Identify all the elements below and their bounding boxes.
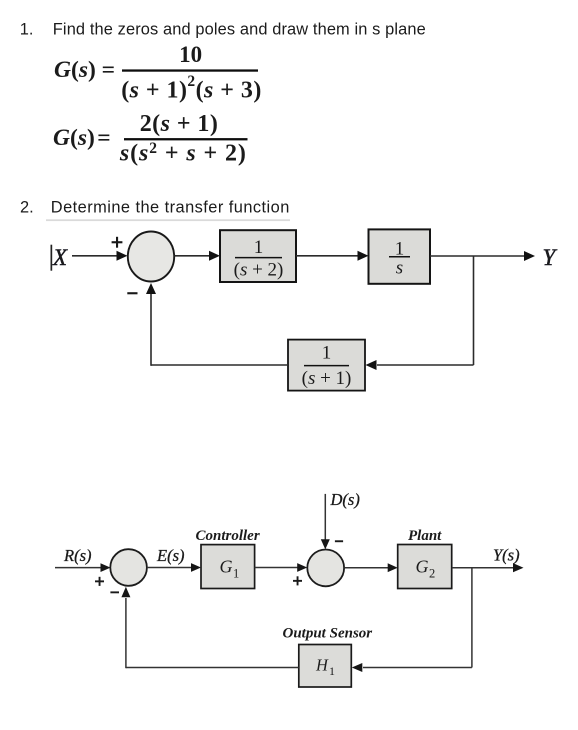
svg-text:(s + 2): (s + 2) [234, 260, 284, 281]
svg-text:D(s): D(s) [330, 490, 360, 509]
wire C1 to G1 [147, 567, 193, 569]
block H1 [299, 645, 352, 688]
svg-text:H: H [315, 656, 329, 675]
plus sign at S1 input [112, 237, 123, 248]
svg-text:G: G [416, 557, 429, 577]
wire R(s) input [55, 567, 101, 569]
svg-text:Determine the transfer functio: Determine the transfer function [51, 199, 290, 217]
minus sign at S1 feedback [127, 292, 137, 294]
svg-text:1: 1 [322, 343, 332, 364]
arrow into summer C2 [297, 563, 307, 572]
arrow into block 1/(s+1) [366, 360, 377, 370]
arrow into block 1/(s+2) [209, 251, 220, 261]
formula G1 fraction bar [122, 69, 258, 71]
node X cursor [51, 245, 53, 271]
block 1/(s+1) [288, 340, 365, 391]
wire 1/s to output Y [430, 255, 526, 257]
svg-text:10: 10 [179, 42, 202, 67]
feedback bottom wire left [126, 667, 299, 669]
block G1 [201, 545, 255, 589]
feedback wire left segment [151, 364, 288, 366]
feedback wire up segment [150, 294, 152, 366]
svg-text:=: = [97, 125, 110, 151]
arrow to node Y [524, 251, 535, 261]
plus sign at C1 input [95, 577, 104, 586]
svg-text:Output Sensor: Output Sensor [283, 625, 373, 641]
arrow into block H1 [352, 663, 363, 672]
summing junction C1 [110, 549, 147, 586]
svg-text:X: X [52, 245, 68, 270]
arrow into block G2 [388, 563, 398, 572]
svg-text:(s + 1): (s + 1) [302, 368, 352, 389]
svg-text:G(s): G(s) [53, 125, 95, 151]
svg-text:G(s): G(s) [54, 57, 96, 83]
svg-text:Y: Y [543, 245, 558, 270]
svg-text:1: 1 [233, 567, 239, 581]
svg-text:Plant: Plant [408, 528, 442, 544]
svg-text:R(s): R(s) [63, 546, 92, 565]
svg-text:(s + 1)2(s + 3): (s + 1)2(s + 3) [121, 73, 262, 104]
svg-text:s(s2 + s + 2): s(s2 + s + 2) [119, 140, 247, 167]
faint scan band [46, 219, 290, 221]
summing junction S1 [128, 232, 174, 282]
svg-text:2(s + 1): 2(s + 1) [140, 111, 219, 137]
arrow down into C2 [321, 539, 330, 549]
formula G2 fraction bar [124, 138, 248, 140]
svg-text:s: s [396, 258, 403, 279]
feedback wire right segment [377, 364, 474, 366]
svg-text:=: = [102, 57, 115, 83]
wire G2 to Y(s) [452, 567, 514, 569]
wire C2 to G2 [344, 567, 390, 569]
svg-text:Y(s): Y(s) [493, 545, 520, 564]
block G2 [398, 545, 452, 589]
arrow into summer S1 [117, 251, 128, 261]
arrow into summer C1 [101, 563, 111, 572]
svg-text:G: G [220, 557, 233, 577]
block 1/s [369, 229, 431, 283]
minus sign at C2 top [335, 540, 343, 542]
svg-text:1: 1 [329, 664, 335, 678]
svg-text:1.: 1. [20, 20, 34, 38]
summing junction C2 [307, 550, 344, 587]
wire S1 to block 1/(s+2) [175, 255, 213, 257]
wire X to summer S1 [72, 255, 118, 257]
svg-text:2: 2 [429, 567, 435, 581]
feedback bottom wire right [363, 667, 472, 669]
arrow into block G1 [191, 563, 201, 572]
plus sign at C2 input [293, 576, 302, 585]
wire 1/(s+2) to 1/s [296, 255, 360, 257]
svg-text:2.: 2. [20, 199, 34, 217]
branch wire down from G2 output [471, 568, 473, 668]
branch wire down from output node [473, 256, 475, 365]
arrow up into C1 [121, 587, 130, 598]
arrow to node Y(s) [513, 563, 524, 572]
arrow into block 1/s [358, 251, 369, 261]
wire D(s) vertical [324, 494, 326, 541]
minus sign at C1 feedback [110, 591, 119, 593]
svg-text:Find the zeros and poles and d: Find the zeros and poles and draw them i… [53, 20, 426, 38]
svg-text:Controller: Controller [196, 528, 260, 544]
feedback wire up into C1 [125, 598, 127, 668]
block 1/(s+2) [220, 230, 296, 282]
wire G1 to C2 [255, 567, 299, 569]
svg-text:1: 1 [254, 237, 264, 258]
svg-text:E(s): E(s) [156, 546, 185, 565]
arrow up into S1 [146, 283, 156, 294]
